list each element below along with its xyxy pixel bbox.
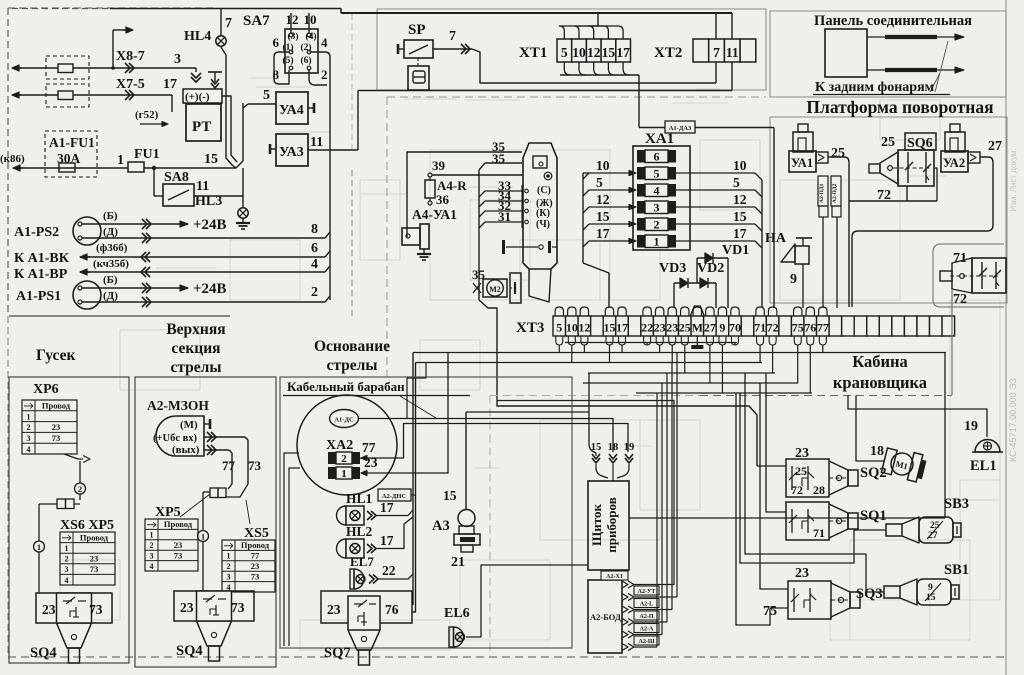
svg-text:(С): (С) [537, 185, 551, 196]
svg-text:23: 23 [327, 602, 341, 617]
svg-text:SB3: SB3 [944, 496, 969, 512]
svg-text:1: 1 [37, 542, 41, 552]
svg-text:28: 28 [813, 483, 825, 497]
solenoid UA3 [276, 134, 308, 166]
svg-text:(К): (К) [536, 208, 550, 219]
wire 3 to PT [13, 67, 22, 69]
svg-text:(+Uбс вх): (+Uбс вх) [153, 433, 198, 444]
connector А2-П [622, 619, 628, 626]
svg-text:12: 12 [733, 192, 747, 207]
svg-text:22: 22 [382, 563, 396, 578]
svg-text:1: 1 [654, 235, 660, 249]
outer dashed frame [7, 8, 9, 316]
svg-text:ХТ3: ХТ3 [516, 320, 544, 336]
svg-text:Кабельный барабан: Кабельный барабан [287, 379, 405, 394]
svg-text:А4-УА1: А4-УА1 [412, 207, 457, 222]
svg-text:EL6: EL6 [444, 606, 470, 621]
svg-text:7: 7 [225, 16, 232, 31]
svg-text:VD1: VD1 [722, 243, 749, 258]
svg-text:А2-БОД: А2-БОД [590, 612, 621, 622]
svg-text:5: 5 [561, 45, 568, 60]
connector А2-Х1 [622, 581, 628, 588]
fuse dashed box upper [46, 56, 89, 79]
fuse FU1 [128, 162, 144, 172]
svg-text:А2-П: А2-П [640, 614, 654, 620]
svg-text:77: 77 [251, 551, 260, 561]
svg-text:SQ1: SQ1 [860, 508, 887, 524]
svg-text:73: 73 [231, 600, 245, 615]
wire A3 to arrow 15 [466, 411, 589, 413]
svg-text:76: 76 [385, 602, 399, 617]
svg-text:11: 11 [196, 179, 209, 194]
svg-text:21: 21 [451, 555, 465, 570]
svg-text:3: 3 [654, 201, 660, 215]
svg-text:ХР5: ХР5 [155, 505, 181, 520]
lamp HL4 [220, 9, 222, 36]
wire 77 from XA2 to arrow 19 [367, 424, 628, 459]
left loops below first XT3 cells [556, 336, 563, 345]
svg-text:А1-ДС: А1-ДС [334, 417, 354, 424]
svg-text:Панель соединительная: Панель соединительная [814, 13, 972, 29]
svg-text:4: 4 [27, 445, 31, 454]
wires to SQ1 [766, 373, 786, 512]
svg-text:10: 10 [733, 158, 747, 173]
svg-text:Провод: Провод [241, 540, 270, 550]
svg-text:Провод: Провод [164, 519, 193, 529]
svg-text:ХР6: ХР6 [33, 382, 59, 397]
svg-text:73: 73 [174, 550, 183, 560]
section box upper boom [135, 377, 276, 667]
svg-text:+24В: +24В [193, 217, 227, 233]
svg-text:VD2: VD2 [697, 261, 724, 276]
switch SA8 [153, 168, 155, 196]
svg-text:10: 10 [304, 12, 317, 27]
svg-text:2: 2 [341, 453, 347, 465]
svg-text:(к86): (к86) [0, 153, 25, 165]
arches above XT3 cells [555, 307, 563, 316]
wires from drum left [284, 453, 299, 646]
svg-text:8: 8 [311, 222, 318, 237]
limit switch SQ3 [788, 581, 831, 619]
svg-text:25: 25 [831, 146, 845, 161]
svg-text:15: 15 [596, 209, 610, 224]
button SB1 [884, 586, 900, 598]
svg-text:11: 11 [310, 135, 323, 150]
svg-text:71: 71 [754, 321, 766, 335]
tag A1-DA3 [665, 121, 695, 133]
svg-text:2: 2 [78, 484, 82, 494]
svg-text:4: 4 [654, 184, 660, 198]
svg-text:4: 4 [311, 257, 318, 272]
trapezoid above M cell [690, 306, 704, 316]
svg-text:КС-45717.00.000 ЭЗ: КС-45717.00.000 ЭЗ [1008, 378, 1018, 462]
svg-text:2: 2 [311, 285, 318, 300]
svg-text:6: 6 [311, 241, 318, 256]
svg-text:А2-ПД1: А2-ПД1 [819, 183, 825, 203]
svg-text:крановщика: крановщика [833, 373, 927, 392]
svg-text:(5): (5) [282, 55, 293, 66]
svg-text:(Ч): (Ч) [536, 219, 550, 230]
svg-text:73: 73 [52, 433, 61, 443]
svg-text:17: 17 [596, 226, 610, 241]
wires SA7 pins to bus [290, 13, 292, 33]
connector А2-L [622, 606, 628, 613]
section box: platform [770, 117, 1007, 303]
svg-text:18: 18 [608, 442, 619, 453]
table XP5 [145, 519, 198, 571]
connector pair [57, 499, 66, 509]
leader dashed lines [935, 41, 948, 92]
wires into XA1 from left [582, 173, 584, 263]
svg-text:VD3: VD3 [659, 261, 686, 276]
svg-text:(Б): (Б) [103, 210, 118, 222]
ghost bleed-through texture [430, 150, 610, 300]
node X8-7 arrow up [112, 30, 114, 68]
svg-text:25: 25 [679, 321, 691, 335]
svg-text:К задним фонарям: К задним фонарям [815, 80, 935, 95]
svg-text:УА1: УА1 [791, 156, 813, 170]
svg-text:6: 6 [654, 150, 660, 164]
tag A2-PD1 [818, 176, 828, 206]
svg-text:73: 73 [248, 458, 262, 473]
svg-text:23: 23 [52, 422, 61, 432]
svg-text:4: 4 [65, 576, 69, 585]
svg-text:Х8-7: Х8-7 [116, 49, 145, 64]
svg-text:7: 7 [449, 29, 456, 44]
svg-text:17: 17 [380, 533, 394, 548]
svg-text:+24В: +24В [193, 281, 227, 297]
svg-text:А2-Х1: А2-Х1 [606, 574, 623, 580]
limit switch SQ7 [321, 591, 412, 623]
svg-text:SQ4: SQ4 [176, 643, 203, 659]
svg-text:10: 10 [566, 321, 578, 335]
svg-text:11: 11 [726, 45, 739, 60]
svg-text:77: 77 [222, 458, 236, 473]
limit switch SQ5 enclosure [933, 244, 1004, 300]
connector pair boom [228, 484, 232, 489]
svg-text:19: 19 [964, 419, 978, 434]
svg-text:К А1-ВР: К А1-ВР [14, 267, 68, 282]
svg-text:Гусек: Гусек [36, 347, 75, 364]
svg-text:(3): (3) [287, 31, 298, 42]
lamp HL3 [242, 196, 244, 208]
connecting panel box [825, 29, 867, 77]
svg-text:ХТ2: ХТ2 [654, 45, 682, 61]
svg-text:10: 10 [572, 45, 586, 60]
wires XT1 to bus [559, 26, 598, 39]
svg-text:25: 25 [795, 464, 807, 478]
section box: panel connecting [770, 11, 1006, 97]
svg-text:9: 9 [719, 321, 725, 335]
svg-text:73: 73 [251, 571, 260, 581]
svg-text:Провод: Провод [80, 532, 109, 542]
svg-text:(+)(-): (+)(-) [185, 91, 210, 103]
svg-text:39: 39 [432, 158, 446, 173]
svg-text:SA8: SA8 [164, 170, 189, 185]
svg-text:стрелы: стрелы [171, 359, 222, 376]
svg-text:1: 1 [150, 531, 154, 540]
wire drops below XT3 to bus lines [565, 342, 737, 344]
svg-text:3: 3 [65, 565, 69, 574]
limit switch SQ2 [786, 459, 829, 497]
tag A2-PD2 [831, 176, 841, 206]
svg-text:EL1: EL1 [970, 458, 997, 474]
svg-text:10: 10 [596, 158, 610, 173]
svg-text:HL4: HL4 [184, 29, 211, 44]
limit switch SQ4 [174, 591, 254, 621]
svg-text:23: 23 [666, 321, 678, 335]
svg-text:5: 5 [556, 321, 562, 335]
svg-text:27: 27 [704, 321, 716, 335]
svg-text:приборов: приборов [604, 497, 619, 552]
section box: top middle (SP/XT1/XT2) [377, 9, 766, 90]
table XP6 [22, 400, 77, 454]
solenoid УА2 [950, 124, 960, 132]
svg-text:23: 23 [180, 600, 194, 615]
svg-text:А2-L: А2-L [640, 602, 653, 608]
wires out of XA1 right side [676, 172, 755, 174]
svg-text:2: 2 [321, 67, 328, 82]
svg-text:(Б): (Б) [103, 274, 118, 286]
svg-text:Основание: Основание [314, 338, 390, 355]
svg-text:12: 12 [596, 192, 610, 207]
svg-text:НА: НА [765, 231, 787, 246]
wire to A1-DA3 tag [638, 75, 640, 128]
svg-text:5: 5 [733, 175, 740, 190]
svg-text:XS6 ХР5: XS6 ХР5 [60, 518, 114, 533]
svg-text:12: 12 [587, 45, 601, 60]
svg-text:77: 77 [817, 321, 829, 335]
button SB3 [886, 524, 902, 536]
svg-text:9: 9 [928, 583, 933, 593]
svg-text:25: 25 [881, 135, 895, 150]
svg-text:(Д): (Д) [103, 290, 118, 302]
svg-text:77: 77 [362, 440, 376, 455]
svg-text:1: 1 [341, 468, 347, 480]
svg-text:70: 70 [729, 321, 741, 335]
svg-text:SQ3: SQ3 [856, 586, 883, 602]
svg-text:УА4: УА4 [279, 103, 304, 118]
svg-text:73: 73 [90, 564, 99, 574]
solenoid UA4 [276, 92, 308, 124]
svg-text:72: 72 [953, 292, 967, 307]
svg-text:Платформа поворотная: Платформа поворотная [806, 97, 993, 117]
wire thick arrow 2 [867, 69, 955, 71]
svg-text:3: 3 [227, 572, 231, 581]
svg-text:15: 15 [733, 209, 747, 224]
wire SA7 left loop 8 [274, 52, 289, 84]
svg-text:Кабина: Кабина [852, 352, 908, 371]
connector А2-Ш [622, 644, 628, 651]
black mark below M cell [691, 345, 703, 349]
table XS5 [222, 540, 275, 592]
svg-text:22: 22 [641, 321, 653, 335]
svg-text:(ф36б): (ф36б) [96, 242, 128, 254]
svg-text:2: 2 [65, 555, 69, 564]
wire 23 from XA2 up to bus [367, 353, 448, 474]
svg-text:SQ4: SQ4 [30, 645, 57, 661]
wire from XP6 to SQ4 [64, 454, 83, 459]
connector A4-XA1 body [523, 143, 557, 269]
wire corner detail [407, 363, 426, 419]
svg-text:23: 23 [654, 321, 666, 335]
svg-text:15: 15 [591, 442, 602, 453]
wire from panel right [629, 517, 945, 519]
connector А2-УТ [622, 594, 628, 601]
svg-text:73: 73 [89, 602, 103, 617]
svg-text:6: 6 [273, 35, 280, 50]
wire top bus [110, 8, 341, 10]
svg-text:5: 5 [654, 167, 660, 181]
svg-text:17: 17 [616, 321, 628, 335]
limit switch SQ1 [786, 502, 829, 540]
svg-text:19: 19 [624, 442, 635, 453]
instrument panel (Shchitok priborov) [588, 481, 629, 570]
svg-text:(4): (4) [305, 31, 316, 42]
svg-text:(Д): (Д) [103, 226, 118, 238]
svg-text:SB1: SB1 [944, 562, 969, 578]
svg-text:А4-R: А4-R [437, 178, 467, 193]
svg-text:Х7-5: Х7-5 [116, 77, 145, 92]
svg-text:А2-А: А2-А [640, 627, 654, 633]
svg-text:71: 71 [953, 251, 967, 266]
cabin section border [951, 290, 953, 395]
svg-text:SQ7: SQ7 [324, 645, 351, 661]
svg-text:(М): (М) [180, 419, 198, 431]
svg-text:А3: А3 [432, 518, 450, 534]
svg-text:А2-ДНС: А2-ДНС [382, 493, 407, 500]
svg-text:3: 3 [150, 551, 154, 560]
cable drum circle [297, 395, 397, 495]
svg-text:А2-Ш: А2-Ш [639, 639, 655, 645]
svg-text:Изм. Лист докум.: Изм. Лист докум. [1009, 148, 1018, 211]
wire bus pair down to lamps/SQ7 [412, 353, 414, 606]
svg-text:72: 72 [791, 483, 803, 497]
svg-text:ХА2: ХА2 [326, 438, 353, 453]
svg-text:А2-ПД2: А2-ПД2 [832, 183, 838, 203]
svg-text:УА3: УА3 [279, 145, 304, 160]
wire M2 down to SQ2 [479, 283, 757, 466]
svg-text:ХТ1: ХТ1 [519, 45, 547, 61]
wires 33 34 32 31 into connector [478, 170, 480, 283]
svg-text:1: 1 [227, 552, 231, 561]
wire FU1 line [14, 167, 23, 169]
svg-text:(2): (2) [300, 42, 311, 53]
svg-text:РТ: РТ [192, 119, 211, 135]
svg-text:Провод: Провод [42, 401, 71, 411]
capacitor symbol inside [506, 246, 538, 248]
svg-text:секция: секция [171, 340, 220, 357]
section box Gusek [9, 377, 129, 663]
svg-text:1: 1 [201, 531, 205, 541]
wire thick arrow 1 [867, 36, 955, 38]
table XS6-XP5 [60, 532, 115, 585]
wires XT1 bottom loops [564, 62, 570, 75]
svg-text:1: 1 [117, 153, 124, 168]
connector А2-А [622, 631, 628, 638]
svg-text:3: 3 [27, 434, 31, 443]
section dashed border left-mid [351, 170, 353, 316]
svg-text:3: 3 [174, 52, 181, 67]
svg-text:35: 35 [492, 151, 506, 166]
svg-text:17: 17 [733, 226, 747, 241]
svg-text:А1-PS2: А1-PS2 [14, 225, 59, 240]
svg-text:УА2: УА2 [943, 156, 965, 170]
svg-text:15: 15 [443, 488, 457, 503]
svg-text:XS5: XS5 [244, 526, 269, 541]
svg-text:А1-PS1: А1-PS1 [16, 289, 61, 304]
svg-text:15: 15 [602, 45, 616, 60]
svg-text:4: 4 [150, 562, 154, 571]
svg-text:17: 17 [616, 45, 630, 60]
svg-text:(кч35б): (кч35б) [93, 258, 129, 270]
svg-text:75: 75 [792, 321, 804, 335]
svg-text:5: 5 [263, 88, 270, 103]
svg-text:36: 36 [436, 192, 450, 207]
section box boom base [280, 377, 572, 648]
relay PT with (+)(-) terminals [191, 73, 201, 78]
svg-text:Щиток: Щиток [589, 504, 604, 546]
sensor A1-DS [330, 410, 359, 428]
svg-text:А2-УТ: А2-УТ [638, 589, 656, 595]
svg-text:1: 1 [27, 412, 31, 421]
limit switch SQ4 [36, 593, 112, 623]
svg-text:2: 2 [227, 562, 231, 571]
svg-text:HL2: HL2 [346, 524, 373, 539]
svg-text:2: 2 [27, 423, 31, 432]
svg-text:18: 18 [870, 444, 884, 459]
svg-text:2: 2 [150, 541, 154, 550]
svg-text:EL7: EL7 [350, 554, 374, 569]
svg-text:7: 7 [713, 45, 720, 60]
svg-text:17: 17 [163, 77, 177, 92]
wire X7-5 [13, 94, 22, 96]
svg-text:(г52): (г52) [135, 109, 159, 121]
svg-text:4: 4 [321, 35, 328, 50]
tag A2-DNS [378, 489, 411, 501]
svg-text:стрелы: стрелы [327, 357, 378, 374]
wire 27 from UA2 down and left [852, 157, 993, 307]
svg-text:23: 23 [251, 561, 260, 571]
wire A1-DS to arrow 18 [358, 419, 613, 453]
unit A2-BOD [588, 580, 622, 653]
svg-text:HL1: HL1 [346, 491, 373, 506]
svg-text:2: 2 [654, 218, 660, 232]
svg-text:23: 23 [42, 602, 56, 617]
wire 11 to platform [308, 149, 358, 151]
svg-text:(вых): (вых) [172, 444, 200, 456]
svg-text:1: 1 [65, 544, 69, 553]
svg-text:Верхняя: Верхняя [166, 321, 225, 338]
svg-text:15: 15 [204, 152, 218, 167]
svg-text:А2-МЗОН: А2-МЗОН [147, 398, 209, 413]
svg-text:SQ6: SQ6 [907, 136, 933, 151]
svg-text:(6): (6) [300, 55, 311, 66]
wire SA7 right loop 2 going down [311, 52, 330, 300]
fuse dashed box lower [46, 84, 89, 107]
svg-text:15: 15 [603, 321, 615, 335]
svg-text:К А1-ВК: К А1-ВК [14, 251, 70, 266]
wire vertical to UA4 [242, 103, 244, 161]
svg-text:27: 27 [988, 139, 1002, 154]
svg-text:5: 5 [596, 175, 603, 190]
svg-text:FU1: FU1 [134, 147, 160, 162]
svg-text:17: 17 [380, 500, 394, 515]
svg-text:23: 23 [174, 540, 183, 550]
svg-text:А1-FU1: А1-FU1 [49, 135, 95, 150]
svg-text:ХА1: ХА1 [645, 131, 674, 147]
svg-text:12: 12 [578, 321, 590, 335]
